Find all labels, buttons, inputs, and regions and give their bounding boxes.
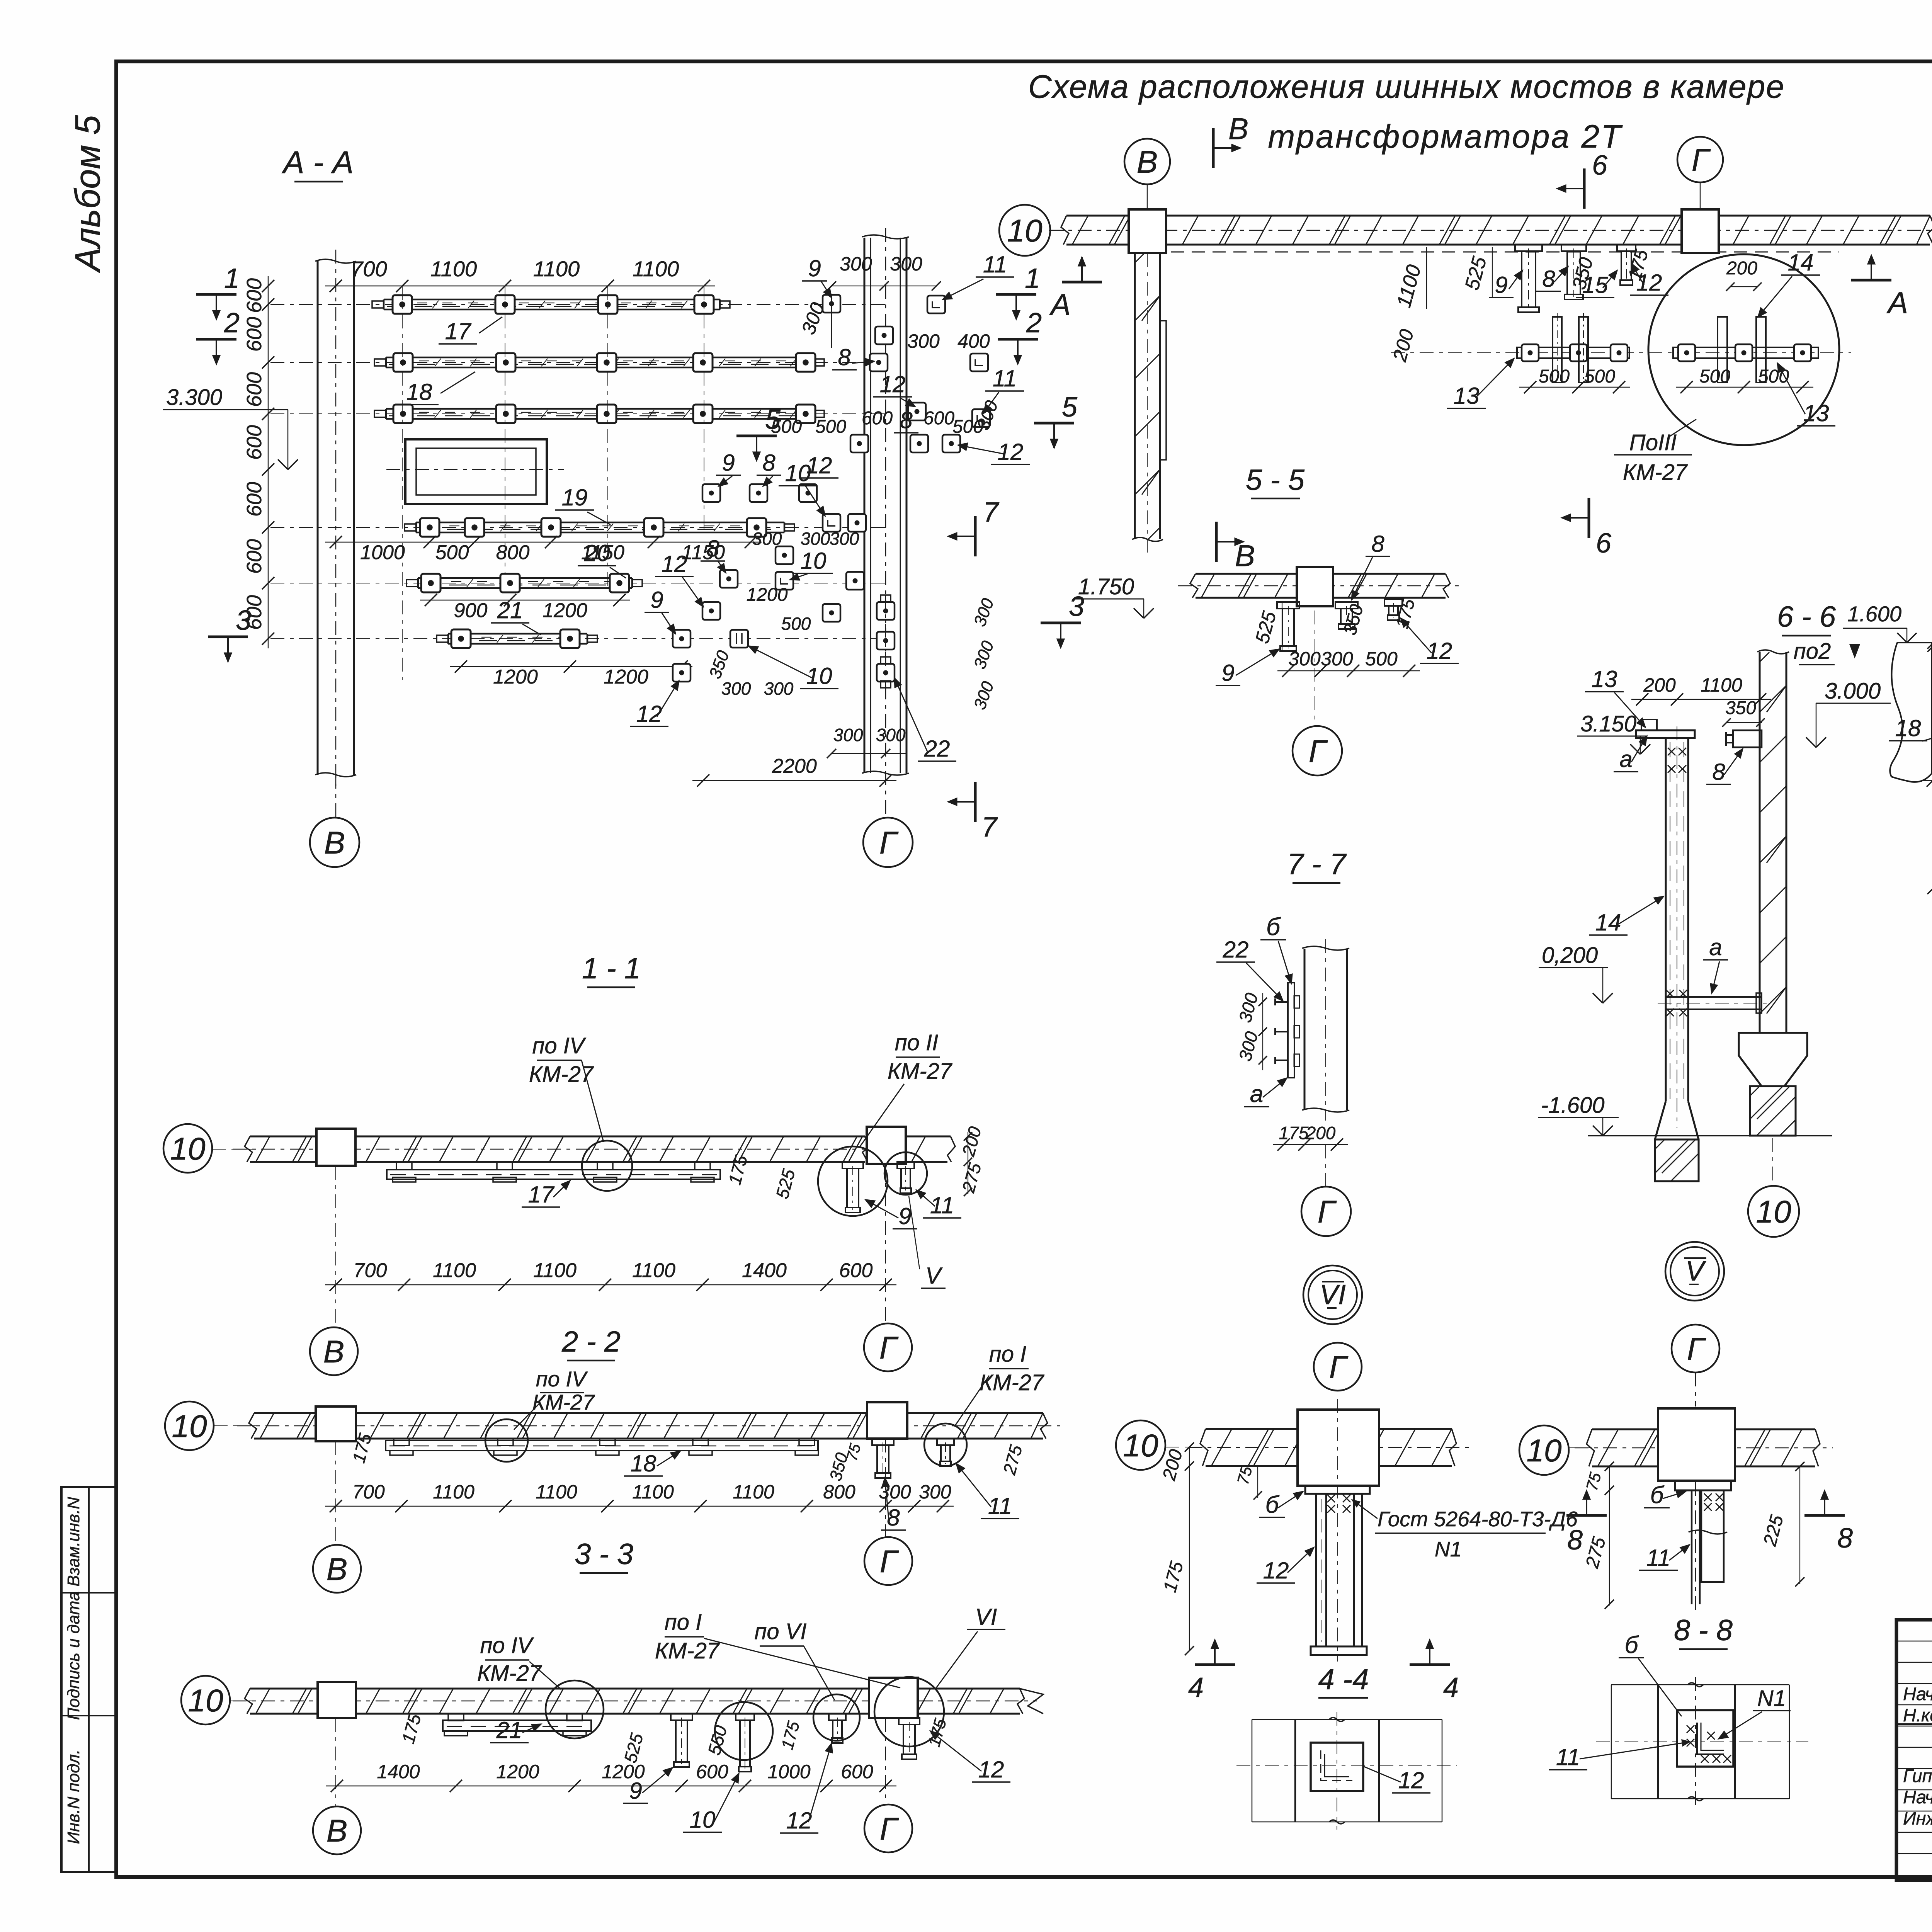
grid circle 10 (8-8) (1519, 1425, 1592, 1475)
svg-text:1100: 1100 (536, 1481, 577, 1503)
drawing title line 1 (1028, 68, 1785, 105)
svg-text:10: 10 (801, 548, 827, 574)
stud poz.8 (top plan) (1561, 245, 1586, 299)
label 8 (2-2) (881, 1478, 906, 1531)
svg-text:3 - 3: 3 - 3 (575, 1538, 633, 1571)
column block Г (top plan) (1682, 209, 1719, 253)
label 22 (895, 678, 956, 762)
dim row (3-3) (326, 1761, 896, 1792)
svg-text:V: V (1685, 1256, 1706, 1287)
svg-text:18: 18 (406, 379, 432, 405)
reference по IV КМ-27 (3-3) (477, 1633, 561, 1689)
svg-text:8: 8 (706, 536, 719, 561)
level mark 1.750 (А-А) (1075, 574, 1154, 618)
level mark 3.150 (6-6) (1577, 711, 1650, 754)
svg-text:А: А (1049, 287, 1071, 321)
svg-text:В: В (1228, 112, 1248, 146)
svg-text:6 - 6: 6 - 6 (1777, 600, 1836, 633)
grid circle Г (3-3) (864, 1718, 912, 1852)
svg-text:4: 4 (1188, 1672, 1204, 1703)
svg-text:В: В (327, 1552, 348, 1587)
svg-text:21: 21 (496, 1717, 522, 1743)
svg-text:В: В (324, 825, 345, 861)
busbar 21 (3-3) (443, 1714, 591, 1736)
rot dims 300 300 (7-7) (1235, 991, 1267, 1070)
dim row 1200/1200 (А-А bottom) (450, 660, 692, 688)
svg-text:11: 11 (1556, 1744, 1580, 1770)
column block Г (1-1) (867, 1127, 906, 1164)
svg-text:VI: VI (975, 1604, 997, 1630)
rot dim 350 (top plan) (1568, 255, 1597, 292)
svg-text:300: 300 (833, 725, 863, 745)
hanger block (4-4) (1298, 1410, 1379, 1494)
svg-text:Подпись и дата: Подпись и дата (64, 1592, 83, 1720)
rot dims (3-3) (398, 1712, 950, 1765)
level line А-А row5 (270, 583, 885, 583)
drawing title line 2 (1268, 118, 1623, 155)
rot dim 525 (top plan) (1461, 247, 1492, 298)
label 11 (8-8 plan) (1549, 1740, 1689, 1770)
opening frame poz.19 (А-А) (386, 439, 564, 504)
svg-text:3.300: 3.300 (166, 385, 222, 410)
svg-text:7 - 7: 7 - 7 (1287, 848, 1347, 881)
rot dims 200 75 175 (4-4) (1159, 1442, 1262, 1655)
svg-text:10: 10 (806, 663, 832, 689)
svg-text:Нач. гр.: Нач. гр. (1903, 1787, 1932, 1807)
rot dim 525 (5-5) (1251, 601, 1282, 652)
svg-text:500: 500 (1539, 366, 1570, 387)
dim 7200 (В-В) (1922, 755, 1932, 787)
rot dim 1100 (top plan) (1393, 247, 1427, 310)
level mark 3.300 (А-А) (163, 385, 298, 469)
dim row 1000/500/800/1150/1150 (А-А) (325, 536, 762, 564)
dims 300 300 300 (cluster bottom rows) (752, 529, 859, 549)
label 12 (4-4 plan) (1364, 1767, 1430, 1793)
busbar 20 (А-А) (406, 574, 642, 592)
svg-text:8: 8 (762, 450, 776, 476)
svg-text:1100: 1100 (433, 1259, 476, 1282)
ceiling beam (5-5) (1178, 574, 1463, 598)
svg-text:1200: 1200 (496, 1761, 539, 1782)
svg-text:1.750: 1.750 (1078, 574, 1134, 599)
section flag В bottom (1216, 522, 1255, 573)
level line А-А row2 (270, 362, 885, 363)
busbar 18 (А-А row2) (374, 353, 824, 372)
svg-text:600: 600 (923, 408, 954, 429)
grid circle В (1-1) (310, 1166, 358, 1375)
svg-text:12: 12 (978, 1757, 1004, 1782)
svg-text:300: 300 (830, 529, 859, 549)
dim 2200 (А-А) (692, 755, 896, 787)
svg-text:1100: 1100 (433, 1481, 474, 1503)
label 8 second (cluster) (894, 407, 918, 433)
weld marks (8-8) (1704, 1493, 1723, 1511)
svg-text:10: 10 (170, 1131, 205, 1167)
svg-text:200: 200 (1306, 1123, 1336, 1143)
grid circle В (top plan) (1124, 139, 1170, 209)
svg-text:б: б (1265, 1492, 1280, 1518)
svg-text:трансформатора 2Т: трансформатора 2Т (1268, 118, 1623, 155)
svg-text:400: 400 (957, 330, 990, 352)
svg-text:8 - 8: 8 - 8 (1674, 1614, 1733, 1647)
detail circle КМ-27 (top plan) (1648, 254, 1839, 445)
title block signatures and names (1903, 1684, 1932, 1828)
svg-text:Г: Г (879, 825, 899, 861)
section title 2-2 (561, 1325, 621, 1361)
ceiling beam (4-4) (1188, 1429, 1469, 1466)
column block В (1-1) (316, 1129, 355, 1166)
level mark 1.600 + по2 (6-6 right) (1794, 602, 1917, 665)
svg-text:1 - 1: 1 - 1 (582, 952, 641, 985)
grid circle Г (2-2) (864, 1439, 912, 1585)
section flag 7 top (А-А) (948, 497, 1000, 556)
labels 300 300 (bottom cluster) (721, 679, 794, 699)
label 8 (5-5) (1352, 531, 1390, 600)
detail circle 11 (2-2) (924, 1423, 967, 1466)
level mark 0,200 (6-6) (1539, 943, 1613, 1003)
svg-text:8: 8 (1542, 266, 1555, 292)
anchor squares on column Г line (poz.22) (877, 595, 895, 692)
hanger 8 (2-2) (872, 1439, 894, 1478)
svg-text:17: 17 (445, 318, 472, 344)
label 21 (3-3) (490, 1717, 541, 1743)
svg-text:600: 600 (243, 278, 266, 313)
section title 1-1 (582, 952, 641, 987)
svg-text:5 - 5: 5 - 5 (1246, 464, 1305, 497)
level line А-А row3 (270, 413, 885, 414)
labels 300 400 (cluster) (907, 330, 990, 352)
svg-text:Инж.1кат: Инж.1кат (1903, 1808, 1932, 1828)
svg-text:Нач.отд.: Нач.отд. (1903, 1684, 1932, 1704)
section flags 8 (8-8) (1566, 1491, 1853, 1556)
svg-text:10: 10 (172, 1409, 207, 1444)
svg-text:300: 300 (764, 679, 794, 699)
svg-text:200: 200 (1726, 258, 1757, 279)
svg-text:1100: 1100 (533, 257, 580, 281)
svg-text:1.600: 1.600 (1847, 602, 1901, 626)
dims 200 1100 (6-6) (1631, 674, 1771, 706)
rot dim 200 (left top plan) (1388, 327, 1418, 364)
reference ПоIII КМ-27 (1614, 419, 1696, 485)
reference по VI (3-3) (754, 1619, 835, 1700)
svg-text:6: 6 (1596, 528, 1612, 559)
svg-text:700: 700 (354, 1259, 387, 1282)
hanger column (4-4) (1311, 1399, 1367, 1662)
dim row 700/1100/1100/1100 (А-А top) (325, 257, 715, 292)
dims 300 300 500 (5-5) (1277, 648, 1420, 677)
rot dims 300 on column Г chain (А-А) (970, 596, 998, 712)
svg-text:500: 500 (1699, 366, 1730, 387)
column poz.14 (6-6) (1655, 726, 1699, 1139)
label 11 (2-2) (956, 1464, 1019, 1519)
column block Г (2-2) (867, 1402, 907, 1439)
svg-text:12: 12 (662, 551, 687, 577)
weld marks (4-4) (1327, 1495, 1350, 1513)
detail circle (2-2) (485, 1419, 528, 1462)
label VI (3-3) (935, 1604, 1005, 1689)
svg-text:21: 21 (497, 597, 523, 623)
svg-text:10: 10 (1526, 1433, 1561, 1468)
label 21 (А-А) (491, 597, 541, 635)
svg-text:по I: по I (989, 1342, 1026, 1367)
svg-text:500: 500 (1365, 648, 1398, 670)
busbar 17 (А-А) (372, 295, 730, 314)
svg-text:1000: 1000 (360, 541, 405, 564)
svg-text:3: 3 (1069, 591, 1084, 622)
label 10 (lower cluster) (790, 548, 833, 580)
svg-text:1100: 1100 (632, 1481, 674, 1503)
ground line (6-6) (1588, 1135, 1832, 1136)
svg-text:300: 300 (1321, 648, 1353, 670)
svg-text:1200: 1200 (747, 585, 788, 605)
wall below В (top plan) (1132, 253, 1166, 553)
grid circle Г (5-5) (1293, 611, 1342, 776)
dims 500 500 600 600 500 (row above cluster center) (771, 408, 983, 437)
label 9 (top plan) (1489, 270, 1522, 298)
svg-text:800: 800 (496, 541, 530, 564)
busbar 18 (2-2) (386, 1439, 818, 1455)
svg-text:по VI: по VI (754, 1619, 806, 1644)
dim row 900/1200 (А-А) (420, 594, 630, 622)
svg-text:N1: N1 (1435, 1537, 1462, 1561)
busbar 21 (А-А) (437, 629, 597, 648)
dim 350 (6-6) (1722, 698, 1765, 727)
svg-text:Г: Г (880, 1544, 899, 1579)
svg-text:Г: Г (1309, 734, 1328, 769)
svg-text:13: 13 (1592, 666, 1617, 692)
detail circle (3-3) (546, 1680, 604, 1738)
grid circle 10 (4-4) (1116, 1420, 1206, 1470)
svg-text:1100: 1100 (430, 257, 477, 281)
svg-text:9: 9 (808, 255, 821, 281)
label 8 (6-6) (1706, 749, 1743, 785)
rot dims 275 200 (1-1) (958, 1124, 985, 1196)
svg-text:а: а (1250, 1081, 1263, 1107)
svg-text:1000: 1000 (767, 1761, 810, 1782)
column block Г (3-3) (869, 1678, 918, 1718)
label 9 (lower left cluster) (645, 587, 675, 634)
svg-text:300: 300 (752, 529, 782, 549)
label 9 (5-5) (1216, 649, 1279, 686)
dims 300 300 (column Г bottom) (827, 725, 906, 758)
svg-text:КМ-27: КМ-27 (980, 1370, 1045, 1395)
svg-text:12: 12 (880, 371, 906, 397)
rot dim 175 (2-2) (348, 1431, 375, 1465)
label 10 (cluster) (779, 460, 825, 516)
svg-text:Взам.инв.N: Взам.инв.N (64, 1497, 83, 1587)
dim 1000 (В-В left) (1927, 620, 1932, 652)
svg-text:1100: 1100 (533, 1259, 577, 1282)
svg-text:8: 8 (838, 344, 851, 370)
plan view (8-8 bottom) (1596, 1677, 1808, 1806)
label 13 (right) (1777, 363, 1835, 426)
svg-text:8: 8 (900, 407, 913, 433)
stud 12 (5-5) (1384, 599, 1402, 620)
label а (7-7) (1244, 1078, 1287, 1107)
svg-text:15: 15 (1582, 272, 1608, 298)
svg-text:А - А: А - А (281, 145, 354, 180)
ceiling beam (2-2) (237, 1413, 1060, 1439)
svg-text:Г: Г (880, 1811, 899, 1847)
svg-text:500: 500 (435, 541, 469, 564)
svg-text:9: 9 (629, 1778, 642, 1804)
label 13 (6-6) (1585, 666, 1645, 727)
svg-text:0,200: 0,200 (1542, 943, 1598, 968)
svg-text:2 - 2: 2 - 2 (561, 1325, 621, 1358)
label 9 (1-1) (866, 1200, 917, 1229)
title block signature grid (1896, 1620, 1932, 1880)
svg-text:Альбом 5: Альбом 5 (68, 115, 107, 273)
svg-text:Инв.N подл.: Инв.N подл. (64, 1750, 83, 1844)
beam lower dashed edge (1171, 252, 1839, 253)
svg-text:КМ-27: КМ-27 (532, 1390, 595, 1414)
svg-text:VI: VI (1320, 1279, 1346, 1310)
label 11 (cluster top) (943, 252, 1014, 299)
svg-text:10: 10 (690, 1807, 716, 1833)
stud 8 (5-5) (1335, 602, 1358, 629)
label 13 (left) (1447, 359, 1514, 409)
svg-text:700: 700 (352, 1481, 385, 1503)
section title 7-7 (1287, 848, 1347, 883)
flag а mid (6-6) (1703, 934, 1728, 993)
label 9 (cluster top) (802, 255, 832, 298)
svg-text:1100: 1100 (733, 1481, 774, 1503)
svg-text:8: 8 (1567, 1525, 1583, 1556)
svg-text:13: 13 (1454, 383, 1480, 409)
label б (8-8 plan) (1619, 1632, 1682, 1716)
ceiling beam 10 (top plan) (1049, 216, 1932, 245)
reference по II КМ-27 (1-1) (860, 1030, 953, 1147)
svg-text:7: 7 (981, 812, 998, 843)
svg-text:800: 800 (823, 1481, 855, 1503)
level mark 3.000 (6-6) (1806, 679, 1891, 747)
svg-text:14: 14 (1595, 910, 1621, 935)
column (7-7) (1302, 939, 1349, 1121)
svg-text:А: А (1886, 286, 1908, 320)
svg-text:а: а (1709, 934, 1722, 960)
label 8 (cluster) (832, 344, 874, 370)
flag а top (6-6) (1614, 736, 1647, 772)
level mark -1.600 (6-6) (1538, 1093, 1619, 1136)
svg-text:V: V (925, 1263, 943, 1289)
label б (7-7) (1260, 913, 1292, 983)
svg-text:Н.контр.: Н.контр. (1903, 1705, 1932, 1725)
svg-text:10: 10 (1123, 1428, 1158, 1463)
left margin inventory stamp boxes (61, 1487, 116, 1872)
section flag 7 bottom (А-А) (948, 782, 998, 843)
label N1 (8-8 plan) (1719, 1686, 1791, 1739)
label 12 right (cluster) (958, 439, 1030, 465)
svg-text:по2: по2 (1794, 639, 1831, 664)
svg-text:6: 6 (1592, 150, 1608, 181)
dim 500 (cluster) (781, 614, 811, 634)
section title 8-8 (1674, 1614, 1733, 1649)
label 12 (4-4) (1257, 1548, 1314, 1583)
grid circle Г (1-1) (864, 1164, 912, 1371)
svg-text:1100: 1100 (632, 1259, 675, 1282)
svg-text:Гост 5264-80-Т3-Д6: Гост 5264-80-Т3-Д6 (1378, 1507, 1578, 1531)
label 8 (top plan) (1536, 266, 1568, 292)
label 11 (8-8) (1639, 1545, 1689, 1571)
svg-text:10: 10 (785, 460, 811, 486)
stud 9 (5-5) (1277, 602, 1299, 651)
section flag 6 bottom (plan) (1562, 498, 1612, 559)
detail circle 9 (1-1) (818, 1146, 888, 1216)
svg-text:300: 300 (721, 679, 751, 699)
busbar (А-А row3) (374, 405, 824, 423)
label 12 (3-3) (780, 1743, 832, 1833)
label 11 (1-1) (917, 1190, 961, 1218)
label 8 (lower cluster) (701, 536, 726, 573)
reference по IV КМ-27 (2-2) (514, 1367, 595, 1430)
stud 9 (3-3) (671, 1714, 692, 1767)
dim 350 (cluster) (706, 648, 733, 681)
dim row (2-2) (325, 1481, 954, 1512)
svg-text:Г: Г (879, 1330, 899, 1366)
svg-text:900: 900 (454, 599, 488, 622)
grid circle 10 (1-1) (163, 1124, 255, 1173)
svg-text:1100: 1100 (1701, 674, 1742, 696)
svg-text:3: 3 (236, 605, 251, 636)
svg-text:7: 7 (983, 497, 1000, 528)
level line А-А row6 (270, 638, 885, 639)
svg-text:б: б (1625, 1632, 1639, 1658)
ceiling beam (8-8) (1575, 1429, 1833, 1466)
section flags 1,2 left (А-А) (196, 263, 240, 364)
svg-text:18: 18 (1895, 715, 1921, 741)
dim row (1-1) (325, 1259, 896, 1291)
svg-text:1: 1 (224, 263, 240, 294)
ceiling beam (3-3) (233, 1689, 1043, 1714)
label 11 (cluster right) (983, 366, 1024, 413)
busbar 19 (А-А) (405, 518, 794, 537)
section flag 5 (right) (1034, 392, 1078, 448)
section flag 6 top (1557, 150, 1608, 209)
svg-text:1200: 1200 (604, 666, 648, 688)
svg-text:9: 9 (898, 1203, 911, 1229)
hanger block (8-8) (1658, 1408, 1735, 1490)
svg-text:200: 200 (1643, 674, 1676, 696)
svg-text:300: 300 (801, 529, 830, 549)
svg-text:9: 9 (1495, 272, 1507, 298)
detail circle 11 (1-1) (884, 1152, 927, 1195)
column block (5-5) (1297, 567, 1333, 606)
grid circle 10 (3-3) (181, 1676, 255, 1725)
album note (Альбом 5, rotated) (68, 115, 107, 273)
svg-text:9: 9 (722, 450, 735, 476)
reference по I КМ-27 (2-2) (954, 1342, 1045, 1427)
section title А-А (281, 145, 354, 182)
label 18 (6-6 right) (1889, 674, 1932, 741)
svg-text:300: 300 (919, 1481, 951, 1503)
svg-text:5: 5 (1062, 392, 1078, 423)
torn sheet piece 18 (6-6 right) (1890, 643, 1932, 782)
svg-text:ПоIII: ПоIII (1629, 430, 1677, 455)
svg-text:9: 9 (650, 587, 663, 613)
grid circle В (А-А bottom) (310, 818, 359, 867)
grid circle Г (8-8 top) (1672, 1325, 1719, 1406)
section title 5-5 (1246, 464, 1305, 498)
svg-text:по II: по II (895, 1030, 939, 1055)
svg-text:11: 11 (988, 1493, 1012, 1519)
svg-text:1: 1 (1025, 263, 1040, 294)
svg-text:600: 600 (243, 317, 266, 352)
grid circle Г (top plan) (1677, 137, 1723, 209)
svg-text:11: 11 (983, 252, 1007, 277)
svg-text:1400: 1400 (742, 1259, 787, 1282)
svg-text:В: В (323, 1334, 345, 1369)
svg-text:700: 700 (351, 257, 387, 281)
